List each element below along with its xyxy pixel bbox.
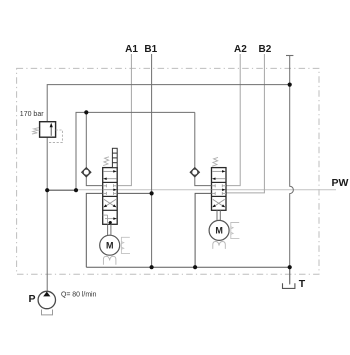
svg-text:A2: A2: [234, 44, 247, 55]
valve V1 section 1 arrows: [103, 170, 117, 180]
motor M2 drain bracket: [231, 223, 240, 239]
motor M2 bracket ticks: [231, 227, 233, 235]
wire valve 1 tank drop: [86, 193, 102, 267]
wire B1 line: [151, 54, 153, 267]
motor M1: [100, 235, 120, 255]
wire A2 line: [226, 54, 240, 186]
svg-text:M: M: [106, 240, 114, 250]
motor M2: [209, 220, 229, 240]
check valve CV1: [82, 168, 91, 177]
valve V2 section 3 cross: [212, 199, 225, 207]
svg-text:M: M: [215, 226, 223, 236]
motor M2 under arcs: [213, 242, 226, 249]
wire tank T drop: [289, 267, 291, 284]
wire P to PW branch: [47, 189, 76, 191]
motor M1 drain bracket: [121, 237, 130, 253]
check valve CV2: [190, 168, 199, 177]
wire P riser: [47, 85, 290, 292]
wire B2 line: [226, 54, 264, 193]
svg-text:PW: PW: [332, 177, 349, 189]
valve V1 section 4 float: [103, 215, 117, 224]
svg-text:Q= 80 l/min: Q= 80 l/min: [61, 292, 97, 299]
motor M1 under arcs: [103, 256, 116, 265]
svg-text:A1: A1: [125, 44, 138, 55]
directional valve V2 body: [212, 168, 227, 211]
relief valve RV 170 bar: [32, 122, 62, 143]
wire right rail with hop over PW: [290, 56, 294, 284]
svg-text:170 bar: 170 bar: [20, 111, 44, 118]
pump P: [38, 291, 55, 315]
wire check valve 2 to valve port: [195, 177, 212, 186]
valve V2 section 2 center: [212, 184, 227, 195]
valve V2 spring: [212, 157, 218, 166]
wire bottom rail: [86, 266, 289, 268]
wire B1 port line: [117, 192, 151, 194]
tank T: [283, 283, 295, 288]
svg-text:T: T: [299, 278, 306, 290]
valve V1 section 3 cross: [103, 199, 116, 207]
motor M1 bracket ticks: [121, 242, 123, 250]
valve V1 detent stack: [112, 148, 117, 167]
svg-text:B1: B1: [144, 44, 157, 55]
valve V1 spring: [103, 157, 109, 166]
valve V1 section 2 center: [103, 184, 118, 195]
motor M1 stem: [108, 224, 111, 235]
cap tick on right rail top: [286, 55, 293, 57]
valve V2 section 1 arrows: [212, 170, 226, 180]
wire check valve 1 drop: [85, 112, 87, 167]
svg-text:B2: B2: [259, 44, 272, 55]
wire A1 line: [117, 54, 131, 186]
wire valve 2 tank drop: [195, 193, 211, 267]
directional valve V1 body: [103, 168, 118, 225]
motor M2 stem: [217, 210, 220, 220]
wire check valve 1 to valve port: [86, 177, 102, 186]
wire check valve 2 drop: [194, 112, 196, 167]
wire PW light rail: [76, 189, 336, 191]
enclosure dashed border: [17, 68, 319, 274]
svg-text:P: P: [29, 293, 36, 305]
wire check feed rail: [76, 112, 195, 189]
